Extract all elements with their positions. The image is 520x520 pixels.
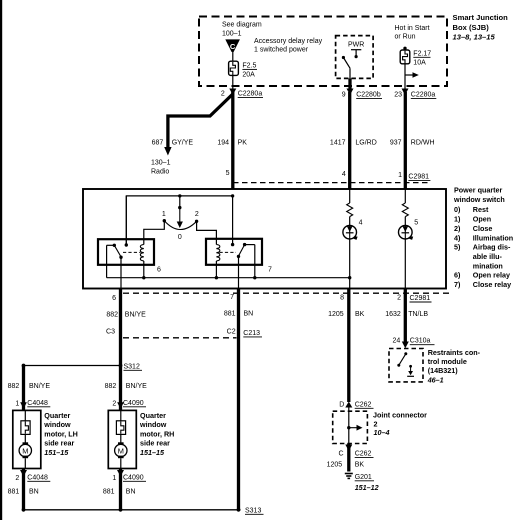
- splice S313: [24, 509, 241, 511]
- fuse F2.17: [400, 50, 410, 64]
- power quarter window switch box: [83, 189, 446, 289]
- svg-text:C2280b: C2280b: [356, 92, 381, 99]
- PWR switch dashed box: [336, 36, 374, 79]
- svg-text:C262: C262: [355, 451, 372, 458]
- PWR switch blade: [342, 56, 345, 59]
- rotary switch wiper: [179, 196, 181, 207]
- connector C2981 dashed line: [233, 182, 431, 184]
- svg-text:937: 937: [390, 139, 402, 146]
- svg-text:C4090: C4090: [123, 474, 144, 481]
- relay 6 coil bottom wire: [143, 261, 145, 278]
- svg-text:6: 6: [112, 295, 116, 302]
- connector pin 9 C2280b: [347, 89, 354, 96]
- wire 881 BN (pin 7 down): [237, 289, 240, 510]
- svg-text:5: 5: [226, 170, 230, 177]
- svg-text:(14B321): (14B321): [428, 366, 459, 375]
- joint connector dashed box: [333, 411, 368, 443]
- svg-text:PWR: PWR: [348, 42, 364, 49]
- svg-text:Quarter: Quarter: [140, 411, 166, 420]
- svg-text:9: 9: [342, 91, 346, 98]
- svg-text:M: M: [22, 446, 28, 455]
- svg-text:1 switched power: 1 switched power: [254, 47, 309, 54]
- svg-text:882: 882: [105, 383, 117, 390]
- svg-text:2: 2: [15, 475, 19, 482]
- arrow into restraints module: [402, 342, 409, 349]
- ground G201: [345, 473, 353, 475]
- svg-text:C2280a: C2280a: [238, 91, 263, 98]
- relay 6 coil: [140, 245, 143, 261]
- svg-text:window switch: window switch: [453, 195, 505, 204]
- internal top feed wire: [126, 196, 232, 245]
- svg-text:D: D: [339, 401, 344, 408]
- relay 6 box: [98, 239, 154, 265]
- svg-text:Accessory delay relay: Accessory delay relay: [254, 38, 323, 45]
- svg-text:side rear: side rear: [140, 439, 170, 448]
- svg-text:or Run: or Run: [395, 34, 416, 41]
- svg-text:C2: C2: [227, 328, 236, 335]
- svg-text:Illumination: Illumination: [473, 233, 513, 242]
- svg-text:0): 0): [454, 205, 461, 214]
- svg-text:GY/YE: GY/YE: [172, 139, 194, 146]
- wire 937 RD/WH (pin 23 to switch pin 1): [404, 92, 407, 189]
- contact 1: [163, 219, 166, 222]
- svg-text:20A: 20A: [242, 72, 255, 79]
- svg-text:7: 7: [230, 294, 234, 301]
- node: pin5 junction: [231, 194, 234, 197]
- svg-text:C3: C3: [106, 329, 115, 336]
- pin C C262: [345, 445, 352, 452]
- svg-text:0: 0: [178, 234, 182, 241]
- svg-text:PK: PK: [238, 139, 248, 146]
- relay 7 contact and blade: [243, 243, 246, 246]
- wire 882 BN/YE (pin 6 down): [119, 289, 122, 366]
- svg-text:BN: BN: [29, 489, 39, 496]
- RH motor breaker: [120, 410, 122, 420]
- svg-text:881: 881: [224, 311, 236, 318]
- svg-text:F2.5: F2.5: [242, 62, 256, 69]
- wire 882 BN/YE to LH motor: [22, 366, 25, 411]
- svg-text:194: 194: [217, 139, 229, 146]
- svg-text:1: 1: [398, 172, 402, 179]
- joint connector internal: [348, 408, 350, 444]
- svg-text:882: 882: [8, 383, 20, 390]
- relay 7 output wire to pin 7: [238, 256, 240, 288]
- lamp 4 branch: wire, resistor, lamp: [349, 189, 351, 203]
- svg-text:1: 1: [112, 475, 116, 482]
- svg-text:13–8, 13–15: 13–8, 13–15: [453, 32, 496, 41]
- svg-text:C2981: C2981: [408, 174, 429, 181]
- svg-text:5): 5): [454, 243, 461, 252]
- relay 6 common return: [106, 245, 108, 277]
- wire fuse F2.5 to pin 2: [232, 75, 234, 89]
- svg-text:See diagram: See diagram: [222, 22, 262, 29]
- pin D C262: [345, 402, 352, 408]
- svg-text:C: C: [339, 451, 344, 458]
- svg-text:46–1: 46–1: [427, 375, 444, 384]
- pin 2 C4090: [117, 402, 124, 409]
- svg-text:C310a: C310a: [410, 338, 431, 345]
- svg-text:4: 4: [342, 171, 346, 178]
- svg-text:2: 2: [397, 295, 401, 302]
- relay 7 coil bottom wire: [215, 261, 217, 278]
- svg-text:BN/YE: BN/YE: [125, 312, 146, 319]
- svg-text:24: 24: [393, 338, 401, 345]
- left page border line: [0, 0, 2, 520]
- wire contact 2 to right relay coil: [197, 221, 217, 244]
- svg-text:151–15: 151–15: [140, 448, 165, 457]
- pin 1 C4048: [20, 402, 27, 409]
- svg-text:Rest: Rest: [473, 205, 489, 214]
- svg-text:1205: 1205: [327, 462, 343, 469]
- svg-text:2: 2: [195, 211, 199, 218]
- svg-text:Close: Close: [473, 224, 493, 233]
- svg-text:motor, LH: motor, LH: [44, 429, 78, 438]
- wire 882 BN/YE to RH motor: [119, 366, 122, 411]
- splice S312: [24, 365, 121, 367]
- wire 1632 TN/LB (pin 2 down): [404, 289, 407, 343]
- svg-text:Radio: Radio: [151, 169, 169, 176]
- LH motor breaker: [24, 410, 26, 420]
- svg-text:6: 6: [157, 267, 161, 274]
- svg-text:882: 882: [106, 312, 118, 319]
- node: feed dot above fuse F2.17: [403, 47, 406, 50]
- svg-text:BK: BK: [355, 311, 365, 318]
- svg-text:window: window: [43, 420, 71, 429]
- lamp 5 branch: wire, resistor, lamp: [404, 189, 406, 203]
- svg-text:Open: Open: [473, 215, 491, 224]
- svg-text:Airbag dis-: Airbag dis-: [473, 243, 511, 252]
- svg-text:motor, RH: motor, RH: [140, 429, 174, 438]
- svg-text:100–1: 100–1: [222, 31, 242, 38]
- relay 6 contact and blade: [113, 244, 116, 247]
- svg-text:BN/YE: BN/YE: [29, 383, 50, 390]
- wire 1417 LG/RD (pin 9 to switch pin 4): [348, 92, 351, 189]
- svg-text:1): 1): [454, 215, 461, 224]
- svg-text:mination: mination: [473, 261, 503, 270]
- relay 7 dashed link: [220, 251, 237, 253]
- svg-text:Quarter: Quarter: [44, 411, 70, 420]
- svg-text:BK: BK: [355, 462, 365, 469]
- svg-text:7: 7: [268, 267, 272, 274]
- svg-text:1: 1: [162, 211, 166, 218]
- svg-text:trol module: trol module: [428, 357, 467, 366]
- relay 7 coil: [216, 245, 219, 261]
- svg-text:S312: S312: [124, 363, 140, 370]
- svg-text:2: 2: [221, 90, 225, 97]
- wire 1205 BK (pin 8 down): [347, 289, 350, 402]
- svg-text:881: 881: [103, 489, 115, 496]
- svg-text:C4048: C4048: [27, 400, 48, 407]
- svg-text:Restraints con-: Restraints con-: [428, 348, 481, 357]
- svg-text:LG/RD: LG/RD: [355, 139, 376, 146]
- svg-text:M: M: [118, 446, 124, 455]
- svg-text:10–4: 10–4: [374, 428, 390, 437]
- restraints sensor arrow: [409, 365, 412, 368]
- wire PWR switch to pin 9: [349, 68, 351, 78]
- relay 7 side return: [254, 245, 256, 278]
- svg-text:F2.17: F2.17: [413, 51, 431, 58]
- svg-text:2): 2): [454, 224, 461, 233]
- LH motor M: [23, 442, 29, 445]
- lamp 4: [343, 225, 357, 239]
- wire below joint connector: [347, 444, 350, 472]
- connector pin 23 C2280a: [402, 89, 409, 96]
- svg-text:151–15: 151–15: [44, 448, 69, 457]
- restraints control module dashed box: [389, 349, 423, 382]
- svg-text:side rear: side rear: [44, 439, 74, 448]
- svg-text:6): 6): [454, 271, 461, 280]
- quarter window motor RH box: [108, 410, 136, 468]
- svg-text:C4048: C4048: [27, 474, 48, 481]
- svg-text:Joint connector: Joint connector: [373, 411, 427, 420]
- svg-text:BN: BN: [126, 489, 136, 496]
- rotary switch arc: [164, 221, 196, 230]
- relay 7 box: [206, 239, 262, 265]
- wire 194 PK (pin 2 to switch pin 5): [231, 92, 234, 189]
- svg-text:able illu-: able illu-: [473, 252, 503, 261]
- svg-text:C2981: C2981: [410, 295, 431, 302]
- pin 1 C4090 bottom: [119, 469, 122, 510]
- PWR switch contact: [351, 49, 361, 51]
- svg-text:C4090: C4090: [123, 400, 144, 407]
- svg-text:4): 4): [454, 233, 461, 242]
- svg-text:1205: 1205: [328, 311, 344, 318]
- restraints switch blade: [404, 352, 407, 355]
- relay 6 dashed link: [123, 251, 141, 253]
- wire triangle C to fuse F2.5: [232, 51, 234, 61]
- wire contact 1 to left relay coil: [144, 221, 165, 245]
- svg-text:RD/WH: RD/WH: [411, 139, 435, 146]
- connector pin 2 C2280a: [229, 89, 236, 96]
- svg-text:8: 8: [340, 295, 344, 302]
- svg-text:C213: C213: [243, 330, 260, 337]
- svg-text:Hot in Start: Hot in Start: [395, 25, 430, 32]
- contact 2: [195, 220, 198, 223]
- relay 6 output wire to pin 6: [120, 257, 122, 289]
- RH motor M: [118, 442, 124, 445]
- svg-text:C2280a: C2280a: [411, 92, 436, 99]
- svg-text:151–12: 151–12: [355, 483, 379, 492]
- svg-text:S313: S313: [245, 507, 261, 514]
- quarter window motor LH box: [13, 410, 41, 468]
- Smart Junction Box dashed outline: [199, 17, 447, 87]
- svg-text:1: 1: [15, 400, 19, 407]
- svg-text:2: 2: [112, 400, 116, 407]
- svg-text:10A: 10A: [413, 59, 426, 66]
- node: wiper feed junction: [178, 194, 181, 197]
- svg-text:TN/LB: TN/LB: [408, 311, 428, 318]
- svg-text:Close relay: Close relay: [473, 280, 511, 289]
- pin 2 C4048 bottom: [22, 469, 25, 510]
- svg-text:1632: 1632: [385, 311, 401, 318]
- wire 687 GY/YE branch to radio: [168, 94, 233, 148]
- svg-text:Open relay: Open relay: [473, 271, 510, 280]
- svg-text:5: 5: [414, 219, 418, 226]
- svg-text:BN: BN: [244, 311, 254, 318]
- svg-text:Box (SJB): Box (SJB): [453, 23, 490, 32]
- svg-text:881: 881: [8, 489, 20, 496]
- svg-text:4: 4: [359, 219, 363, 226]
- svg-text:130–1: 130–1: [151, 159, 171, 166]
- relay 7 feed wire from pin5: [232, 196, 234, 245]
- lamp 5: [399, 225, 413, 239]
- svg-text:BN/YE: BN/YE: [126, 383, 147, 390]
- svg-text:7): 7): [454, 280, 461, 289]
- relay 6 feed wire: [125, 196, 127, 245]
- svg-text:Smart Junction: Smart Junction: [453, 13, 509, 22]
- fuse F2.5: [229, 61, 239, 75]
- svg-text:G201: G201: [355, 474, 372, 481]
- internal common wire: [107, 277, 350, 279]
- svg-text:C262: C262: [355, 401, 372, 408]
- svg-text:Power quarter: Power quarter: [454, 186, 503, 195]
- svg-text:window: window: [139, 420, 167, 429]
- connector C213 dashed lines: [123, 292, 453, 294]
- wire fuse F2.17 to pin 23 with branch arrow: [404, 64, 406, 89]
- svg-text:1417: 1417: [330, 139, 346, 146]
- svg-text:23: 23: [394, 91, 402, 98]
- svg-text:687: 687: [152, 139, 164, 146]
